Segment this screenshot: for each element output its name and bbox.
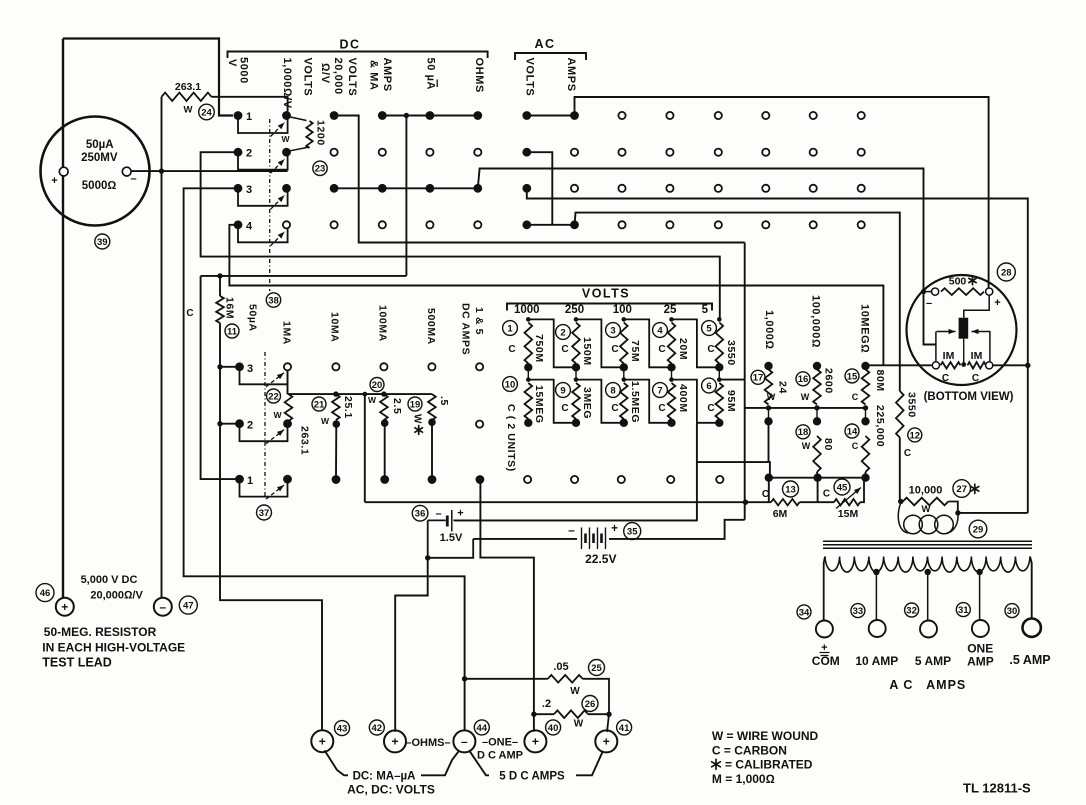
circled 15 [845,369,859,383]
svg-text:80: 80 [822,438,834,451]
wire 80M top to rectifier minus rail [866,364,932,366]
svg-text:263.1: 263.1 [299,426,311,455]
circled 14 [845,424,859,438]
svg-text:C: C [707,403,714,414]
svg-text:M = 1,000Ω: M = 1,000Ω [712,772,775,786]
junction 2600 bottom [814,405,819,410]
svg-text:–ONE–: –ONE– [482,737,518,749]
circled 38 shaft [266,293,280,307]
svg-text:47: 47 [183,601,194,612]
contact grid r4c8 [570,220,579,229]
svg-text:50 µA: 50 µA [425,58,437,91]
svg-text:150M: 150M [581,337,593,366]
svg-text:15M: 15M [838,508,859,520]
svg-text:1.5V: 1.5V [440,532,463,544]
contact A2 right [282,148,291,157]
contact bottom row x574 [571,476,578,483]
svg-text:24: 24 [777,381,789,394]
junction on ma feed at 16M [217,273,222,278]
circled 37 [257,505,272,520]
node volts row2 bottom 3 [620,419,628,427]
circled 27 [953,480,971,498]
wire row2A stud to rail1 [201,152,720,319]
junction right column 1M [1025,363,1030,368]
svg-text:OHMS: OHMS [473,58,485,93]
circled 24 [199,104,215,120]
svg-text:C: C [762,489,769,500]
svg-text:W: W [281,134,290,144]
svg-text:3: 3 [610,325,615,336]
wire mid down [817,478,819,503]
wire link rows 5 [718,367,720,379]
svg-text:500: 500 [949,276,967,288]
svg-text:6M: 6M [773,508,788,520]
resistor R8 1.5MEG C [620,383,628,419]
svg-text:500MA: 500MA [425,308,437,345]
circled 36 [412,505,428,521]
battery BT2 short plate 2 [592,534,595,544]
svg-text:5: 5 [706,323,712,334]
wire ohm column to 22p5 jog [744,502,746,520]
svg-text:36: 36 [415,509,426,520]
contact grid r4c3 [331,221,338,228]
svg-text:–: – [568,523,575,537]
svg-text:20,000: 20,000 [332,58,344,95]
svg-text:16: 16 [798,374,809,385]
svg-text:–: – [926,298,932,310]
svg-text:W: W [412,414,423,424]
circled 44 [474,720,489,735]
contact grid r2c5 [426,149,433,156]
wire 22.5 rail [473,538,577,540]
svg-text:1: 1 [507,323,513,334]
wire row4 c8 up east to 3550 [575,213,900,391]
svg-text:22.5V: 22.5V [585,552,616,566]
wire 95M stud east [720,379,745,381]
contact A2 left [234,148,243,157]
svg-text:2: 2 [246,148,252,160]
resistor R5 3550 C [716,323,724,364]
resistor R24 263.1 W [162,93,212,101]
resistor R22 263.1 W [285,394,293,421]
resistor R7 3MEG C [572,383,580,419]
pointer line 5DC amps right [576,751,603,776]
junction coil left [898,499,903,504]
svg-text:AMPS: AMPS [565,58,577,92]
node volts top stud 4 [669,317,674,322]
wire row3 c6 up east to bottom view minus [478,169,936,345]
wire bottom rail long [365,501,771,503]
wire 22.5 rail east [609,520,745,539]
svg-text:C: C [904,448,911,459]
svg-text:AMP: AMP [967,655,994,669]
contact grid r2c14 [858,149,865,156]
contact A3 right [282,184,291,193]
contact B2 left [235,419,244,428]
wire shunt rail [288,393,432,395]
wire row2 c7 down to row4 [527,152,553,225]
svg-text:7: 7 [657,385,662,396]
underline com 2 [821,655,829,657]
resistor R3 75M C [620,323,628,364]
node volts row2 bottom 1 [524,419,532,427]
wire row3 c7 east to right column [527,188,1028,513]
wire row4A stud west down then east to 80M [229,225,883,365]
wire ladder row2 step 2 [576,380,624,423]
wire 2.5 to contact [384,423,386,476]
svg-text:COM: COM [812,654,840,668]
contact grid r4c10 [666,221,673,228]
circled 21 [312,397,326,411]
contact ma row DC AMPS [476,363,483,370]
node volts row2 stud 2 [574,377,579,382]
node volts top stud 5 [717,317,722,322]
junction bottom rail ohm column [743,500,748,505]
wiper arrow switch A row at y152 [271,159,285,173]
tap 10 amp [873,569,879,575]
node 1000ohm top [764,362,772,370]
wire coil junction east to right column [958,512,1028,514]
junction meter minus / high voltage lead [159,168,164,173]
svg-text:29: 29 [973,524,984,535]
jack J42 plus [384,730,406,752]
resistor R28 500 cal [941,288,984,295]
svg-text:W: W [922,504,931,515]
svg-text:.5 AMP: .5 AMP [1009,653,1050,667]
star calibrated R27 [971,484,979,493]
svg-text:2: 2 [560,327,565,338]
wire .5 to contact [431,422,433,476]
meter M1 50uA movement circle [41,117,150,226]
wire 16M column bottom [220,323,322,731]
svg-text:C: C [852,441,859,451]
battery BT2 long plate 2 [589,528,591,550]
wire top box horizontal and drop to switch row 1 [63,39,233,116]
resistor 1M left [941,362,961,368]
wire col1 row2 down [768,421,770,462]
junction switch B row2 feed [217,421,222,426]
contact bottom row x384 [380,475,389,484]
wire row1 c3 to ohms dropper [334,116,745,243]
junction 80M bottom [863,405,868,410]
svg-text:10 AMP: 10 AMP [855,654,898,668]
jack J32 5AMP [920,621,937,638]
resistor R25 .05 W [548,675,583,683]
svg-text:V: V [226,59,238,67]
circled 22 [267,389,281,403]
circled 42 [369,720,384,735]
node 80 top [813,417,821,425]
svg-text:TEST LEAD: TEST LEAD [42,656,111,670]
svg-text:8: 8 [610,385,615,396]
svg-text:IM: IM [943,350,955,362]
circled 35 [624,523,641,540]
contact grid r3c13 [810,185,817,192]
circled 32 [905,603,919,617]
terminal 1M left [932,362,939,369]
bracket VOLTS [507,304,712,311]
svg-text:–: – [461,735,468,749]
svg-text:250MV: 250MV [81,152,118,164]
svg-text:W: W [321,416,330,426]
svg-text:Ω/V: Ω/V [319,63,331,84]
svg-text:19: 19 [410,399,421,410]
junction .2 right [606,712,611,717]
junction 25.1 bottom [333,420,341,428]
svg-text:C ( 2 UNITS): C ( 2 UNITS) [505,404,517,472]
contact A4 left [234,220,243,229]
jack J33 10AMP [869,620,886,637]
wire left tall vertical from top box to jack 46 [62,39,64,599]
wire 15M up to right node [860,478,864,503]
wire 10000 right down [948,502,958,513]
circled 26 [582,696,598,712]
contact grid r2c7 [522,148,531,157]
svg-text:2: 2 [247,420,253,432]
svg-text:9: 9 [560,385,565,396]
svg-text:1000: 1000 [514,304,540,316]
resistor R13 6M C [771,499,800,505]
wire to B2 left stud [220,423,237,425]
contact grid r3c12 [762,185,769,192]
circled 28 [997,263,1015,281]
jack J34 COM [816,621,833,638]
wire shunt rail to 1MA contact [287,370,289,394]
svg-text:W: W [368,395,377,405]
contact grid r4c6 [474,221,481,228]
wire row1 AC volts-amps link [527,115,575,117]
svg-text:AC, DC: VOLTS: AC, DC: VOLTS [347,783,435,797]
contact A3 left [234,184,243,193]
battery BT2 long plate 1 [581,528,583,550]
svg-text:80M: 80M [874,370,886,392]
contact grid r3c3 [330,184,339,193]
wire ladder row2 step 4 [672,380,720,423]
svg-text:.05: .05 [553,661,568,673]
wire tap 5 amp [927,572,929,620]
wire R22 to stud B2R [288,421,289,424]
node volts row1 bottom 4 [667,363,675,371]
bracket DC [228,52,488,59]
resistor R11 16M C [216,296,224,323]
svg-text:12: 12 [910,430,921,441]
wire switch B row 2 U-link [240,427,288,442]
svg-text:5,000 V DC: 5,000 V DC [81,574,138,586]
node volts row2 bottom 2 [572,419,580,427]
circled 17 [751,370,765,384]
svg-text:10: 10 [505,379,516,390]
node volts top stud 2 [574,317,579,322]
svg-text:5 D C AMPS: 5 D C AMPS [499,771,565,783]
wire left arrow drop [935,332,937,362]
svg-text:13: 13 [785,484,796,495]
wire between 6M 15M [800,501,835,503]
wire vertical to jack 47 [161,171,163,598]
svg-text:38: 38 [268,295,279,306]
wire 16M column top [219,276,221,296]
svg-text:C: C [942,373,949,384]
contact grid r3c4 [378,184,387,193]
svg-text:27: 27 [956,484,967,495]
contact A4 right [283,221,290,228]
svg-text:50-MEG. RESISTOR: 50-MEG. RESISTOR [44,625,157,639]
resistor R27 10000 W [903,498,949,506]
wire battery minus east jog [428,539,474,558]
transformer core line 1 [823,540,1032,542]
svg-text:100: 100 [613,304,632,316]
terminal 500 plus [986,288,993,295]
svg-text:AMPS: AMPS [381,58,393,92]
transformer core line 3 [823,547,1032,549]
svg-text:–: – [130,173,136,185]
contact grid r4c9 [618,221,625,228]
meter coil rectangle [959,318,969,339]
contact bottom row x719 [716,476,723,483]
junction .2 left [531,712,536,717]
circled 34 [797,605,811,619]
contact grid r3c9 [618,185,625,192]
node 100000ohm top [813,362,821,370]
contact bottom row x479 [476,475,485,484]
wire meter minus to switch A right studs [131,170,288,172]
contact grid r1c13 [810,112,817,119]
svg-text:5000Ω: 5000Ω [82,180,117,192]
wire tap one amp [979,572,981,620]
contact grid r3c14 [858,185,865,192]
node volts row2 bottom 4 [667,419,675,427]
circled 11 [225,324,239,338]
node 225000 top [861,417,869,425]
wire right arrow drop [989,332,991,362]
circled 47 [179,596,197,614]
battery BT1 short plate [446,516,449,527]
wire 1M right east [993,364,1028,366]
junction battery minus [425,555,430,560]
junction .5 bottom [428,418,436,426]
svg-text:+: + [603,735,610,749]
svg-text:W: W [273,410,282,420]
svg-text:100MA: 100MA [377,305,389,342]
wire 6M left down [768,478,770,503]
circled 19 [408,397,422,411]
svg-text:DC: DC [339,38,360,52]
resistor R14 225000 C [862,436,870,472]
wire row3A stud west down to jack 44 [184,188,465,731]
wire switch A row 4 U-link [238,228,288,243]
contact bottom row x336 [332,475,341,484]
wire stud A1R to R23 [288,117,307,121]
svg-text:C: C [611,344,618,355]
svg-text:A C: A C [889,678,913,692]
svg-text:14: 14 [847,426,858,437]
svg-text:C: C [508,344,515,355]
contact grid r4c7 [522,220,531,229]
svg-text:(BOTTOM VIEW): (BOTTOM VIEW) [924,391,1014,403]
svg-text:45: 45 [837,482,848,493]
resistor R20 2.5 W [380,394,388,420]
circled 8 [606,383,621,398]
contact grid r4c13 [810,221,817,228]
underline com 1 [820,652,830,654]
resistor R12 3550 C [896,391,904,438]
wire ladder row2 step 3 [624,380,672,423]
svg-text:3: 3 [246,184,252,196]
node volts row1 bottom 5 [715,363,723,371]
contact grid r2c13 [810,149,817,156]
wire 1.5V rail east [453,519,697,521]
wire .2 left stub [534,713,554,715]
wire row1 tap down to ma switch feed [405,116,407,276]
svg-text:VOLTS: VOLTS [346,58,358,97]
battery BT2 long plate 4 [605,528,607,550]
battery BT2 long plate 3 [597,528,599,550]
contact A1 right [282,111,291,120]
svg-text:33: 33 [853,606,864,617]
svg-text:4: 4 [657,325,663,336]
bracket AC [515,53,586,60]
svg-text:3550: 3550 [906,392,918,418]
svg-text:34: 34 [799,607,810,618]
svg-text:.5: .5 [438,396,450,406]
node volts row1 bottom 1 [524,363,532,371]
contact grid r3c10 [666,185,673,192]
circled 13 [783,481,799,497]
stub rail to 80 top [816,408,818,421]
pointer line 5DC amps left [469,750,489,775]
contact grid r4c14 [858,221,865,228]
contact grid r1c3 [330,111,339,120]
svg-text:1,000Ω: 1,000Ω [763,310,775,350]
star calibrated R19 [415,426,423,435]
contact grid r2c4 [379,149,386,156]
wiper arrow switch A row at y115 [271,123,285,137]
svg-text:26: 26 [585,699,596,710]
svg-text:.2: .2 [542,698,551,710]
svg-text:DC: MA–µA: DC: MA–µA [353,771,416,783]
node volts row2 stud 4 [669,377,674,382]
circled 5 [702,321,717,336]
svg-text:22: 22 [268,391,279,402]
jack J47 minus [154,598,172,616]
junction at 500 minus terminal [921,289,926,294]
svg-text:+: + [994,297,1000,309]
contact grid r4c5 [426,221,433,228]
svg-text:+: + [391,735,398,749]
node 6M-15M mid [813,474,821,482]
junction shunt 2.5 top [381,391,386,396]
svg-text:C: C [707,344,714,355]
contact grid r3c5 [426,184,435,193]
battery BT2 short plate 3 [600,534,603,544]
jack J40 plus [524,730,546,752]
svg-text:750M: 750M [533,334,545,363]
resistor R23 1200 W [306,121,312,148]
wire 80 bottom to dot [816,472,819,476]
circled 46 [36,584,54,602]
svg-text:VOLTS: VOLTS [582,287,630,301]
resistor R18 80 W [813,436,821,472]
svg-text:10,000: 10,000 [909,485,943,497]
circled 30 [1005,604,1019,618]
contact bottom row x527 [524,476,531,483]
svg-text:+: + [457,508,463,520]
jack J30 .5AMP [1022,619,1040,637]
svg-text:W: W [801,392,810,402]
node volts row2 stud 1 [526,377,531,382]
svg-text:31: 31 [958,605,969,616]
wire shunt rail tap down to bottom rail [364,394,366,502]
contact grid r4c11 [715,221,722,228]
